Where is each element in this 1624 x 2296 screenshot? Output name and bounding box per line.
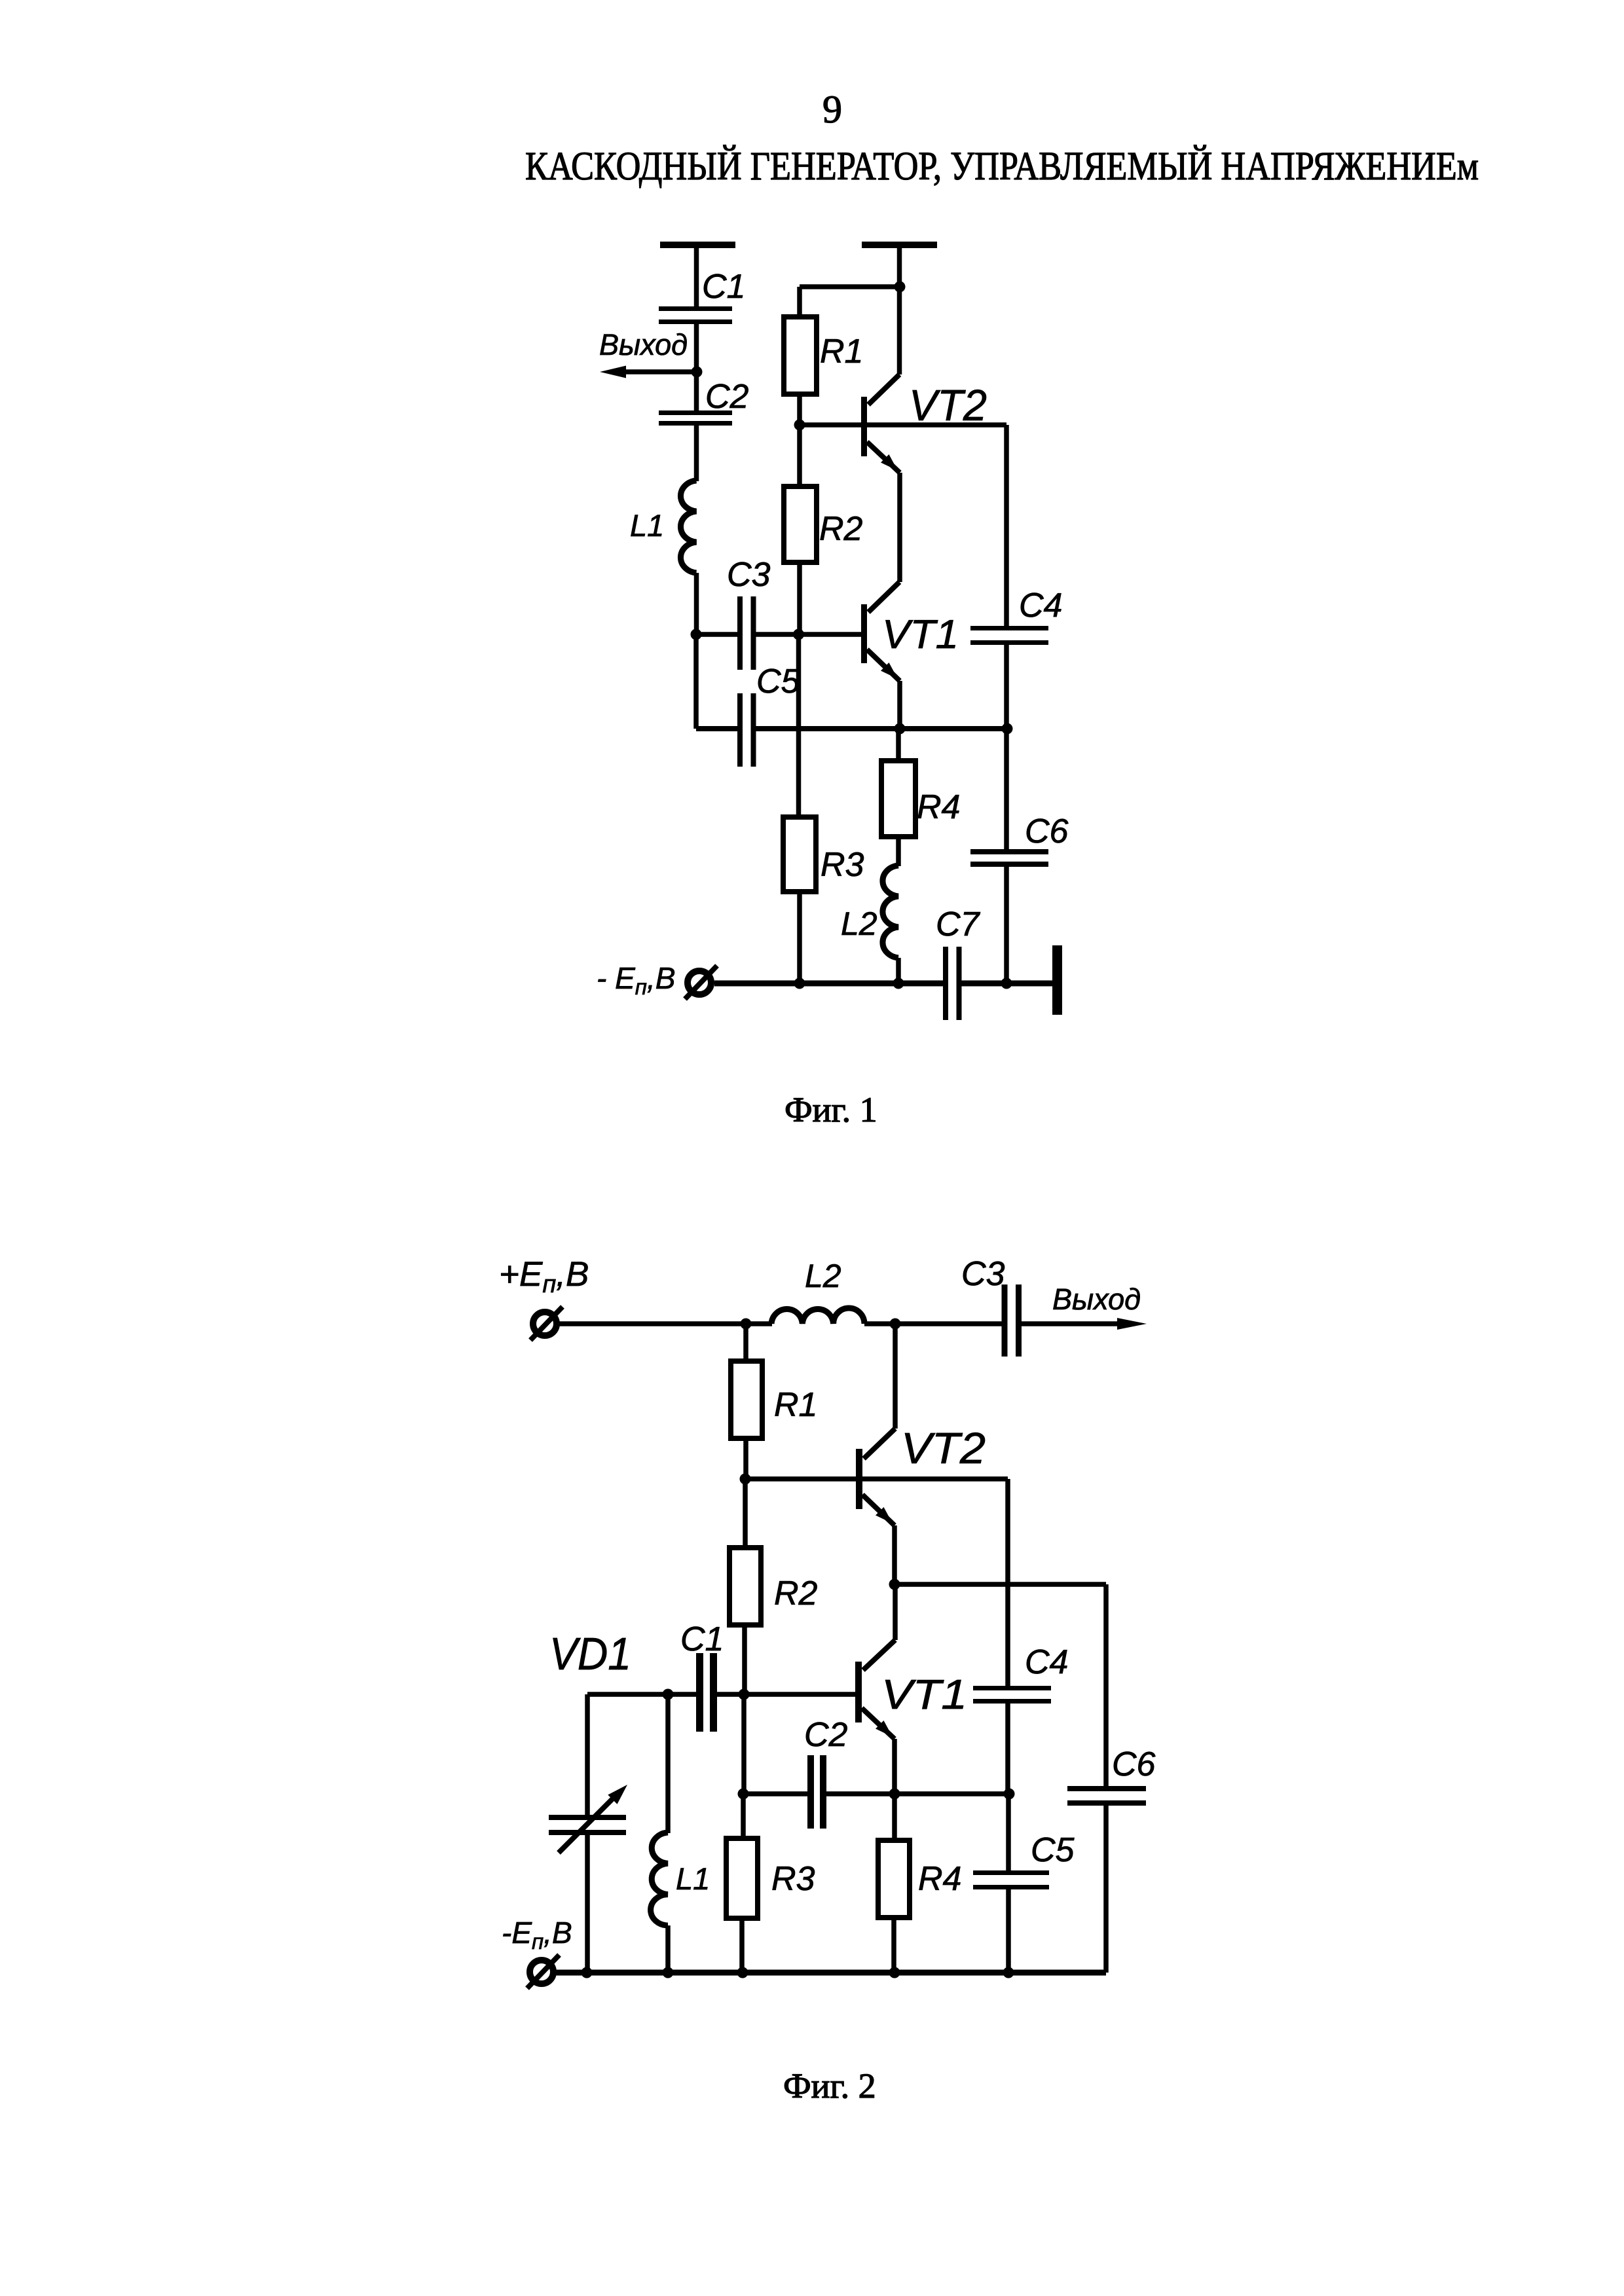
svg-text:R3: R3 <box>771 1860 815 1898</box>
wire VD1 branch top <box>587 1692 697 1697</box>
wire bottom rail left <box>714 981 944 987</box>
svg-text:VT1: VT1 <box>882 612 959 657</box>
svg-text:C4: C4 <box>1019 587 1062 625</box>
wire L2 to C3 <box>864 1321 1002 1326</box>
svg-text:L1: L1 <box>676 1861 710 1896</box>
node L2/VT2 collector junction <box>890 1319 901 1330</box>
resistor R1 <box>784 317 817 394</box>
wire bottom rail <box>554 1970 1106 1976</box>
wire node A down to emitter rail <box>693 634 699 729</box>
wire VT2 emitter to C6 column <box>895 1582 1106 1587</box>
node R1/top rail junction <box>741 1319 752 1330</box>
node R4/rail <box>889 1967 900 1978</box>
capacitor C6 <box>1067 1786 1146 1806</box>
node output junction <box>692 367 703 378</box>
wire L1 to bottom rail <box>665 1925 671 1973</box>
resistor R2 <box>784 486 817 562</box>
wire C4 to node F <box>1004 645 1009 729</box>
node A (L1 / C3 junction) <box>691 629 702 640</box>
svg-text:VT2: VT2 <box>909 381 987 430</box>
svg-text:КАСКОДНЫЙ ГЕНЕРАТОР, УПРАВЛЯЕМ: КАСКОДНЫЙ ГЕНЕРАТОР, УПРАВЛЯЕМЫЙ НАПРЯЖЕ… <box>525 145 1479 189</box>
wire node B down to R3 (crosses rail) <box>796 634 802 817</box>
ground (top-left common bar) <box>660 242 735 248</box>
svg-text:R3: R3 <box>821 846 864 884</box>
capacitor C3 <box>1002 1285 1022 1357</box>
transistor VT1 <box>861 582 900 729</box>
wire VT1 emitter to R4 <box>892 1794 897 1840</box>
wire C5 to bottom rail <box>1006 1889 1011 1973</box>
wire VD1 column upper <box>585 1694 590 1815</box>
capacitor C2 <box>807 1755 826 1829</box>
wire R2 to node H <box>742 1625 747 1694</box>
wire VT2 base / to C4 column <box>800 422 1006 428</box>
svg-text:R4: R4 <box>918 1860 961 1898</box>
wire R1 to node G <box>743 1438 748 1479</box>
wire output arrow <box>623 369 697 374</box>
wire bottom rail right <box>961 981 1053 987</box>
node B (R2 / C3 / VT1 base junction) <box>793 629 804 640</box>
svg-text:C5: C5 <box>1031 1831 1075 1869</box>
wire R4 to bottom rail <box>891 1918 896 1973</box>
capacitor C5 <box>973 1870 1049 1889</box>
svg-text:R2: R2 <box>819 510 863 548</box>
ground (right wall bar) <box>1052 945 1062 1015</box>
wire C6 to bottom rail <box>1103 1806 1109 1973</box>
svg-text:C6: C6 <box>1112 1745 1156 1783</box>
node L2/rail junction <box>893 978 904 989</box>
wire ground bar to C1 <box>694 248 699 307</box>
capacitor C3 <box>737 596 756 670</box>
node G (R1/R2/VT2 base) <box>740 1474 751 1485</box>
wire L1 column upper <box>665 1694 671 1833</box>
inductor L1 <box>680 481 696 573</box>
svg-text:R1: R1 <box>820 333 863 371</box>
capacitor C4 <box>973 1686 1051 1704</box>
node F (rail / C4 / C6 junction) <box>1002 723 1013 735</box>
svg-text:R1: R1 <box>774 1386 817 1424</box>
node L1 top junction <box>663 1689 674 1700</box>
wire to R4 <box>896 729 901 761</box>
wire emitter rail to C2 <box>743 1791 808 1796</box>
wire C6 to bottom rail <box>1004 867 1009 983</box>
wire C1 to output node <box>694 324 699 372</box>
transistor VT1 <box>855 1584 895 1794</box>
svg-text:R2: R2 <box>774 1575 818 1613</box>
svg-text:C6: C6 <box>1025 812 1069 850</box>
wire C6 column upper <box>1103 1584 1109 1787</box>
svg-text:C2: C2 <box>705 378 749 416</box>
svg-text:Выход: Выход <box>599 328 688 361</box>
svg-text:Фиг. 2: Фиг. 2 <box>783 2066 876 2105</box>
resistor R4 <box>881 761 915 837</box>
inductor L2 <box>883 866 898 958</box>
node C (R1/R2/VT2 base junction) <box>794 420 805 431</box>
node D (VT2 collector junction) <box>895 282 906 293</box>
ground (top-right common bar) <box>862 242 937 248</box>
node C6/rail junction <box>1001 978 1012 989</box>
svg-text:C5: C5 <box>756 663 801 701</box>
svg-text:L2: L2 <box>805 1258 841 1294</box>
wire node C to R2 <box>797 425 802 486</box>
wire node G to R2 <box>743 1479 748 1548</box>
wire VT2 base column down to C4 <box>1005 1479 1010 1686</box>
terminal -Eп,В <box>685 966 717 999</box>
wire ground bar to node D <box>897 248 902 287</box>
svg-text:C3: C3 <box>961 1255 1005 1293</box>
svg-text:C4: C4 <box>1025 1643 1068 1681</box>
wire VT2 base rail <box>745 1476 1008 1482</box>
svg-text:9: 9 <box>822 88 842 131</box>
wire C2 to L1 <box>694 426 699 481</box>
wire node K down to R3 <box>741 1794 746 1838</box>
node L1/rail <box>663 1967 674 1978</box>
terminal -Eп,В (fig2) <box>527 1955 559 1988</box>
node I (VT2 emitter junction) <box>889 1579 900 1590</box>
terminal +Eп,В <box>530 1307 563 1340</box>
node J (C4/C5/emitter rail) <box>1004 1789 1015 1800</box>
wire emitter rail right segment <box>756 726 1007 731</box>
wire R3 to bottom rail <box>739 1918 745 1973</box>
svg-text:VT2: VT2 <box>901 1424 986 1473</box>
wire C2 to node J <box>826 1791 1009 1796</box>
node VT1 emitter junction <box>889 1789 900 1800</box>
wire R4 to L2 <box>896 837 901 866</box>
transistor VT2 <box>856 1324 895 1584</box>
node C5/rail <box>1003 1967 1014 1978</box>
capacitor C5 <box>737 693 756 767</box>
capacitor C1 <box>659 306 732 324</box>
svg-text:VT1: VT1 <box>881 1671 967 1718</box>
node VD1/rail <box>581 1967 593 1978</box>
capacitor C1 <box>696 1653 717 1732</box>
svg-text:C1: C1 <box>702 268 745 306</box>
resistor R2 <box>729 1548 761 1625</box>
inductor L2 <box>771 1308 864 1324</box>
wire C3 to output arrow <box>1022 1321 1121 1326</box>
wire node H down to emitter rail <box>741 1694 747 1794</box>
inductor L1 <box>651 1832 668 1925</box>
wire emitter rail left segment <box>696 726 738 731</box>
capacitor C4 <box>970 626 1048 645</box>
svg-text:C1: C1 <box>680 1620 724 1658</box>
wire node A to C3 <box>696 632 738 637</box>
node K (C2 rail left) <box>738 1789 749 1800</box>
wire C3 to node B <box>756 632 798 637</box>
wire R3 to bottom rail <box>797 892 802 983</box>
wire node J to C5 <box>1006 1794 1011 1871</box>
capacitor C6 <box>970 849 1048 867</box>
capacitor C2 <box>694 372 699 411</box>
wire down to R1 <box>797 287 802 317</box>
node R3/rail <box>737 1967 748 1978</box>
wire R1 to node C <box>797 394 802 425</box>
svg-text:C2: C2 <box>804 1716 848 1754</box>
wire node B to VT1 base <box>799 632 862 637</box>
wire R2 to node B <box>797 562 802 634</box>
wire node F to C6 <box>1004 729 1009 850</box>
node E (VT1 emitter / R4 junction) <box>895 723 906 735</box>
varactor VD1 <box>549 1785 627 1853</box>
wire VD1 to bottom rail <box>585 1835 590 1973</box>
svg-text:C7: C7 <box>936 905 981 943</box>
resistor R3 <box>726 1838 758 1918</box>
svg-text:Выход: Выход <box>1052 1283 1141 1316</box>
capacitor C7 <box>943 947 962 1020</box>
svg-text:L2: L2 <box>841 905 877 942</box>
resistor R1 <box>731 1361 762 1438</box>
svg-text:L1: L1 <box>630 508 664 543</box>
resistor R3 <box>783 817 816 892</box>
svg-text:VD1: VD1 <box>549 1628 631 1679</box>
wire C4 column top <box>1004 425 1009 627</box>
resistor R4 <box>878 1840 910 1918</box>
wire R1 top to VT2 collector <box>800 284 900 289</box>
svg-text:Фиг. 1: Фиг. 1 <box>784 1090 877 1129</box>
node H (R2/C1/VT1 base) <box>739 1689 750 1700</box>
wire top rail to R1 <box>743 1324 748 1361</box>
wire C1 to VT1 base <box>717 1692 856 1697</box>
svg-text:C3: C3 <box>727 556 771 594</box>
wire L1 to node A <box>694 573 699 634</box>
wire C4 to node J <box>1005 1704 1010 1794</box>
wire L2 to bottom rail <box>896 958 901 983</box>
node R3/rail junction <box>794 978 805 989</box>
svg-text:R4: R4 <box>917 788 960 826</box>
wire top rail left <box>557 1321 772 1326</box>
transistor VT2 <box>861 287 900 582</box>
